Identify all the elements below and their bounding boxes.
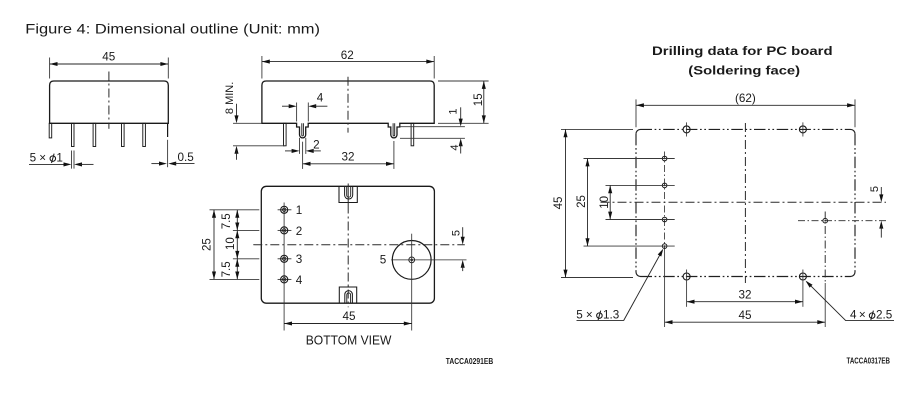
svg-text:1: 1 bbox=[296, 204, 303, 217]
svg-text:×: × bbox=[39, 151, 46, 164]
side view relay body with clinch notches bbox=[262, 81, 434, 138]
pin 5 large circle bbox=[380, 234, 467, 331]
terminal hole 5 (dia 1.3, right) bbox=[798, 212, 886, 328]
mounting hole top-right (dia 2.5) bbox=[799, 122, 806, 136]
mounting hole top-left (dia 2.5) bbox=[683, 122, 690, 136]
side view dimension 62 bbox=[262, 49, 434, 79]
bottom view body outline bbox=[261, 186, 434, 303]
mounting hole bottom-right (dia 2.5) bbox=[799, 270, 806, 307]
svg-text:45: 45 bbox=[102, 50, 116, 63]
relay outline on PC board (phantom line) bbox=[636, 129, 855, 276]
svg-text:2.5: 2.5 bbox=[876, 308, 893, 321]
front view relay body bbox=[50, 81, 169, 123]
front view dimension 45 bbox=[50, 50, 169, 78]
dimension 7.5 / 10 / 7.5 (pin pitches) bbox=[221, 210, 239, 280]
svg-text:8 MIN.: 8 MIN. bbox=[224, 82, 236, 114]
svg-text:(Soldering face): (Soldering face) bbox=[688, 64, 800, 78]
svg-text:TACCA0291EB: TACCA0291EB bbox=[446, 356, 493, 366]
terminal hole 4 (dia 1.3) bbox=[662, 244, 667, 249]
svg-text:7.5: 7.5 bbox=[221, 213, 233, 229]
drawing code TACCA0291EB bbox=[446, 356, 493, 366]
svg-text:2: 2 bbox=[313, 138, 320, 151]
svg-text:2: 2 bbox=[296, 225, 303, 238]
front view center line bbox=[108, 72, 110, 129]
svg-text:0.5: 0.5 bbox=[178, 151, 195, 164]
terminal hole 3 (dia 1.3) bbox=[662, 217, 667, 222]
svg-text:1.3: 1.3 bbox=[603, 308, 619, 321]
terminal hole column center line bbox=[664, 152, 666, 253]
board dimension 45 (bottom) bbox=[665, 253, 826, 328]
board horizontal center line bbox=[601, 201, 887, 203]
bottom view pin column line bbox=[283, 203, 285, 331]
bottom view pin 4 terminal bbox=[278, 274, 303, 287]
bottom view pin 1 terminal bbox=[278, 204, 303, 217]
bottom view bottom clinch slot bbox=[339, 287, 356, 303]
front view pin 5 bbox=[143, 123, 146, 146]
label 5 x dia 1.3 with leader arrow bbox=[576, 249, 663, 322]
bottom view pin 3 terminal bbox=[278, 253, 303, 266]
dimension 4 (clinch recess width, top) bbox=[282, 92, 327, 122]
dimension 4 (hook pin protrusion) bbox=[400, 138, 465, 153]
svg-text:×: × bbox=[586, 308, 593, 321]
svg-text:45: 45 bbox=[553, 197, 565, 210]
svg-text:(62): (62) bbox=[735, 92, 756, 105]
side view left straight pin bbox=[284, 123, 287, 146]
svg-text:1: 1 bbox=[447, 108, 459, 114]
svg-text:Drilling data for PC board: Drilling data for PC board bbox=[652, 44, 833, 58]
svg-text:32: 32 bbox=[341, 150, 354, 163]
label 4 x dia 2.5 with leader arrow bbox=[806, 281, 895, 322]
dimension 25 (pin group height) bbox=[202, 210, 217, 280]
svg-text:10: 10 bbox=[599, 196, 611, 209]
svg-text:×: × bbox=[859, 308, 866, 321]
bottom view top clinch slot bbox=[339, 186, 357, 202]
terminal hole 1 (dia 1.3) bbox=[662, 156, 667, 161]
svg-text:5: 5 bbox=[30, 151, 37, 164]
svg-text:5: 5 bbox=[380, 254, 387, 267]
svg-text:5: 5 bbox=[869, 186, 881, 192]
dimension 1 (clinch recess depth) bbox=[400, 107, 465, 126]
extension lines for pin pitch dimensions bbox=[210, 210, 260, 280]
svg-text:BOTTOM VIEW: BOTTOM VIEW bbox=[306, 332, 392, 347]
board dimension 32 bbox=[687, 288, 803, 303]
dimension 2 (hook pin width) bbox=[285, 138, 321, 154]
svg-text:4: 4 bbox=[850, 308, 857, 321]
dimension 5 (hole 5 offset) bbox=[869, 186, 884, 238]
svg-text:25: 25 bbox=[202, 238, 214, 251]
svg-text:3: 3 bbox=[296, 253, 303, 266]
svg-text:TACCA0317EB: TACCA0317EB bbox=[847, 356, 891, 366]
svg-text:32: 32 bbox=[738, 288, 751, 301]
svg-text:7.5: 7.5 bbox=[221, 261, 233, 277]
extension lines for terminal hole dimensions bbox=[584, 159, 675, 247]
svg-text:25: 25 bbox=[576, 195, 588, 208]
terminal hole 2 (dia 1.3) bbox=[662, 183, 667, 188]
svg-text:Figure 4: Dimensional outline: Figure 4: Dimensional outline (Unit: mm) bbox=[25, 21, 320, 36]
bottom view pin 2 terminal bbox=[278, 225, 303, 238]
svg-text:5: 5 bbox=[451, 230, 463, 236]
svg-text:10: 10 bbox=[225, 237, 237, 250]
front view pin 1 (left edge pin) bbox=[49, 123, 52, 138]
front view pin 3 bbox=[93, 123, 96, 146]
svg-text:4: 4 bbox=[296, 274, 303, 287]
svg-text:5: 5 bbox=[576, 308, 583, 321]
heading: Drilling data for PC board bbox=[652, 44, 833, 77]
bottom view horizontal center line bbox=[253, 244, 464, 246]
dimension 10 (terminal hole pitch) bbox=[599, 185, 612, 219]
dimension 5 (pin 5 offset from center) bbox=[451, 227, 465, 271]
board vertical center line bbox=[744, 123, 746, 283]
side view right straight pin bbox=[411, 123, 414, 146]
left clinch hook pin inner fold bbox=[302, 123, 304, 136]
right clinch hook pin inner fold bbox=[393, 123, 395, 136]
svg-text:45: 45 bbox=[342, 310, 356, 323]
svg-text:1: 1 bbox=[56, 151, 63, 164]
label 5 x dia 1 with leader bbox=[29, 151, 94, 169]
dimension 8 MIN. (pin length) bbox=[224, 82, 285, 160]
svg-text:15: 15 bbox=[473, 93, 485, 106]
board dimension (62) bbox=[636, 92, 855, 127]
front view right edge pin (0.5 thick) bbox=[167, 123, 169, 137]
svg-text:62: 62 bbox=[341, 49, 354, 62]
dimension 15 (body height) bbox=[438, 81, 489, 123]
front view pin 2 bbox=[72, 123, 75, 146]
dimension 0.5 (right pin thickness) bbox=[151, 140, 194, 167]
bottom view vertical center line bbox=[347, 184, 349, 308]
dimension 32 (hook pin spacing) bbox=[303, 141, 394, 169]
drawing code TACCA0317EB bbox=[847, 356, 891, 366]
svg-text:45: 45 bbox=[738, 309, 752, 322]
front view pin 4 bbox=[122, 123, 125, 146]
caption BOTTOM VIEW bbox=[306, 332, 392, 347]
bottom view dimension 45 bbox=[284, 310, 412, 325]
side view center line bbox=[347, 77, 349, 133]
board dimension 45 (vertical) bbox=[553, 129, 633, 277]
dimension 25 (terminal hole group) bbox=[576, 159, 590, 247]
mounting hole bottom-left (dia 2.5) bbox=[683, 270, 690, 307]
svg-text:4: 4 bbox=[449, 144, 461, 150]
title: Figure 4 caption bbox=[25, 21, 320, 36]
svg-text:4: 4 bbox=[317, 92, 324, 105]
